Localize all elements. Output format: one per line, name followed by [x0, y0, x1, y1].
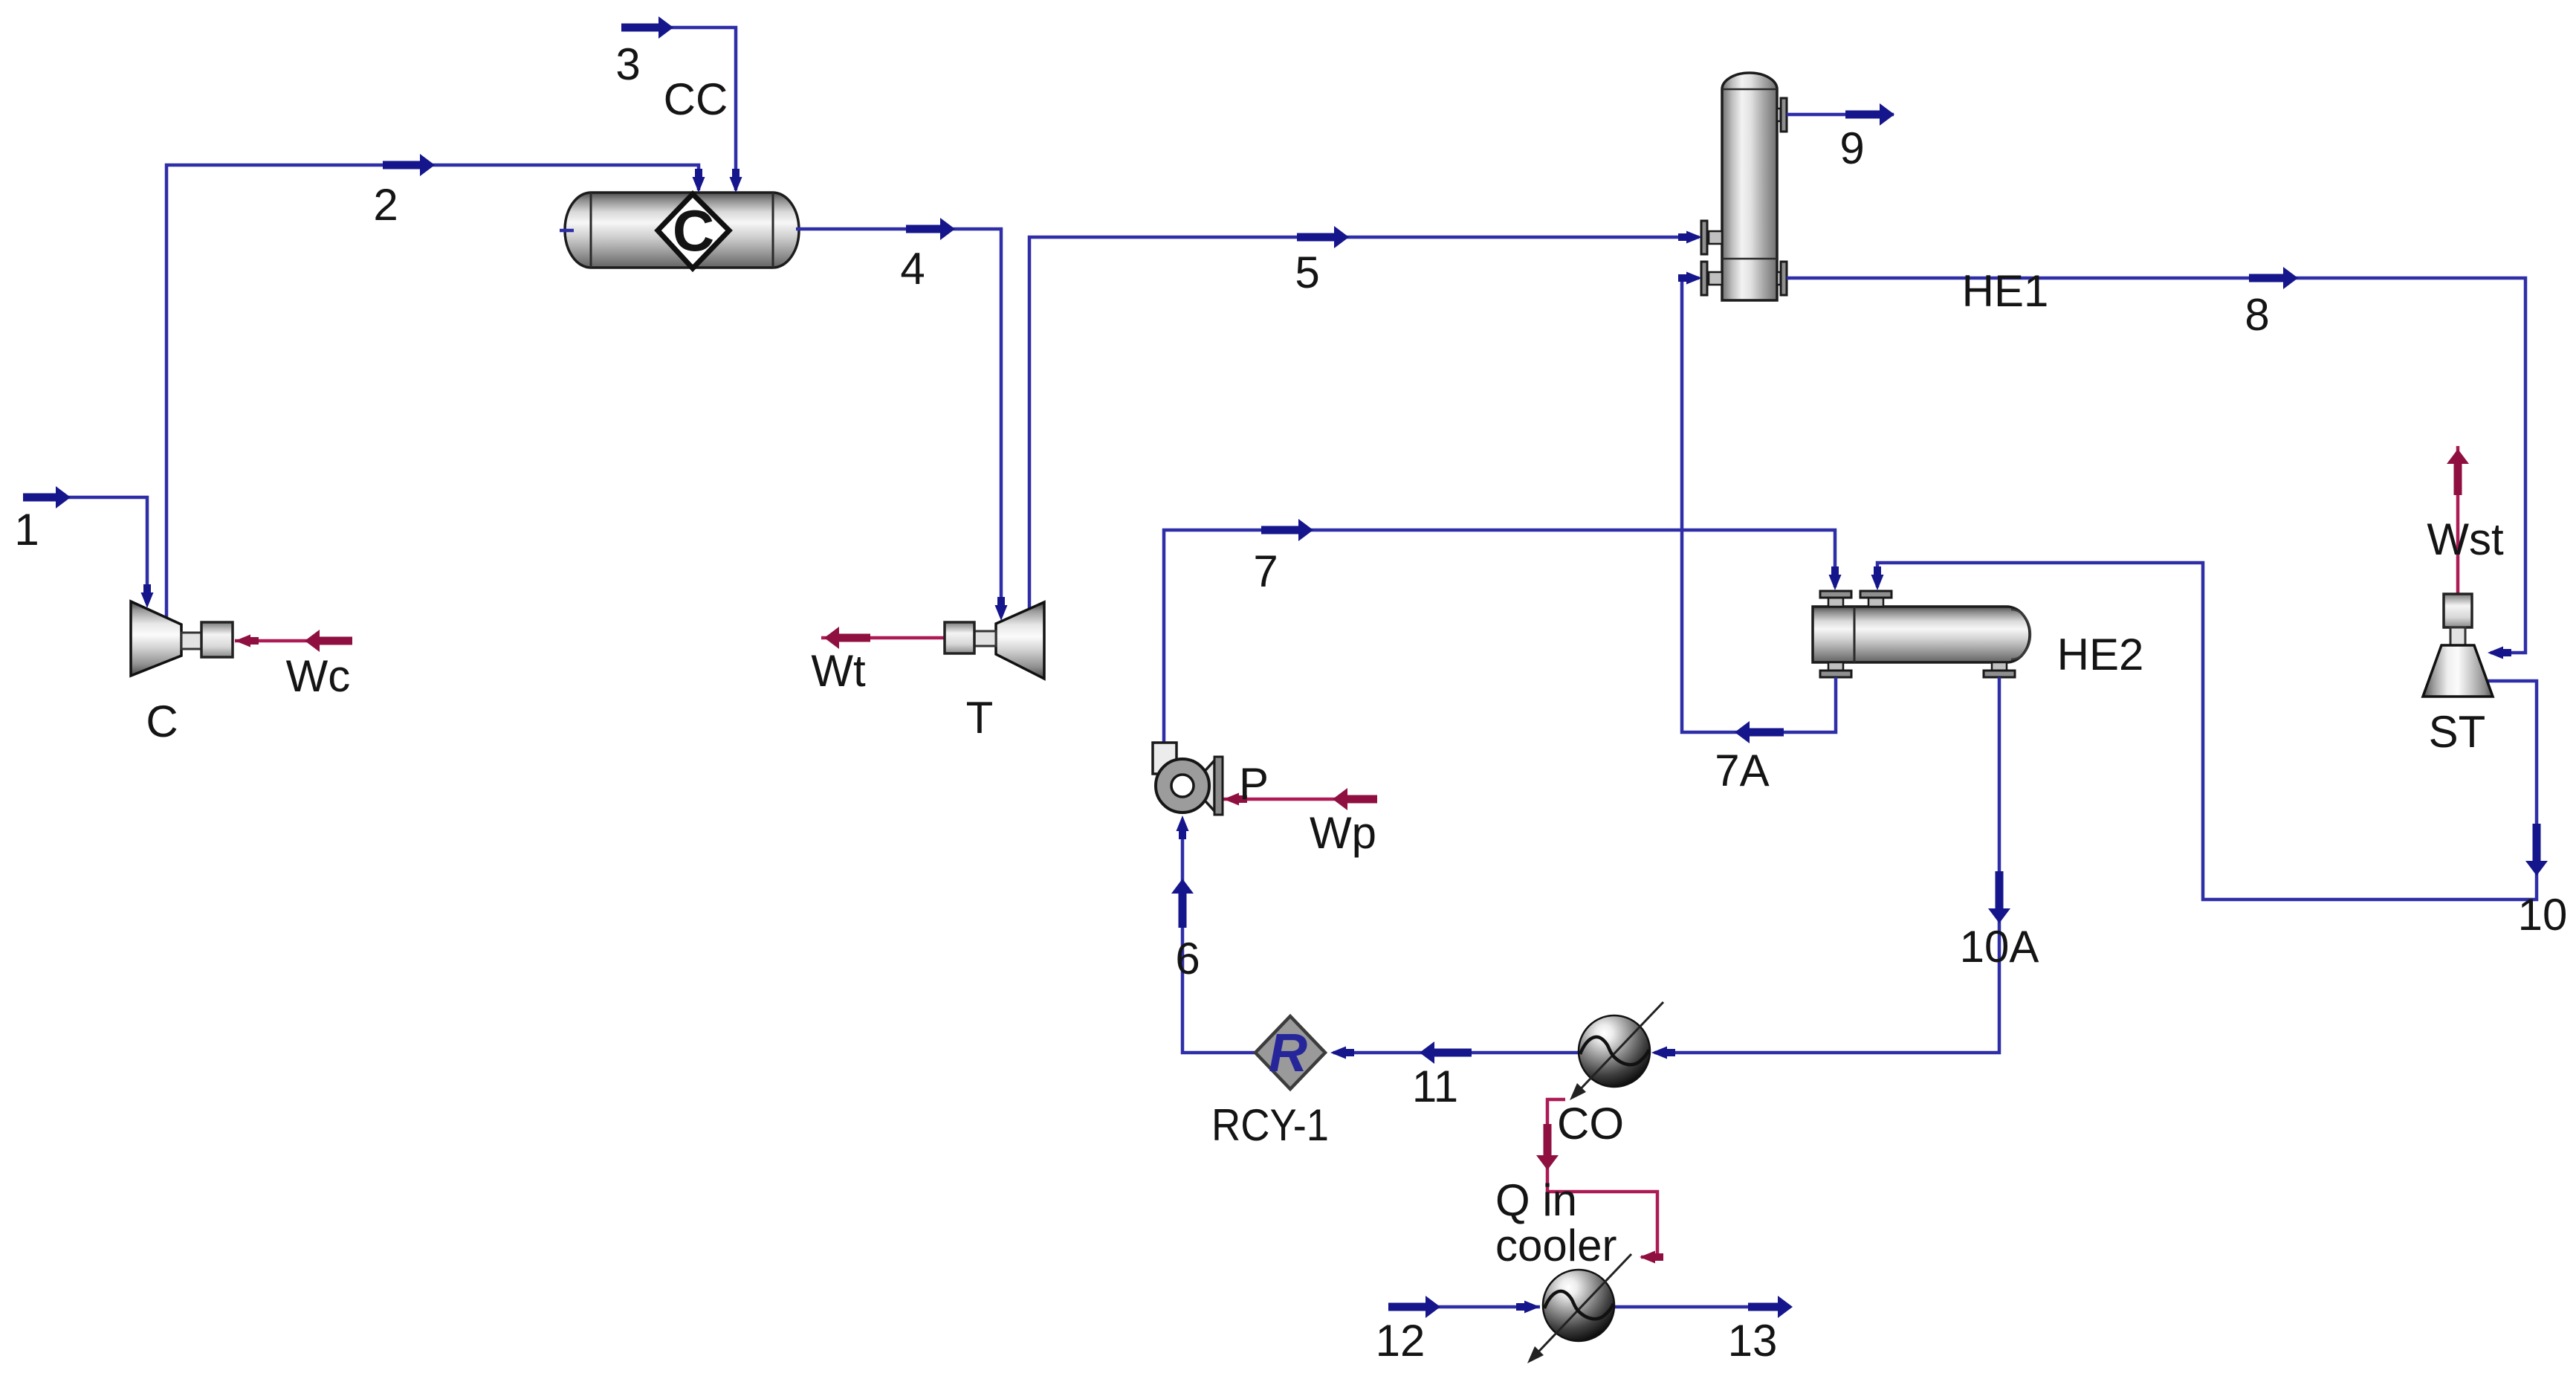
thick arrow stream 13 [1748, 1303, 1778, 1311]
svg-text:Wt: Wt [811, 646, 866, 696]
thick arrow stream 4 [906, 225, 940, 233]
wire stream 1 [23, 497, 147, 591]
HE1 nozzle left middle (stream 5 in) [1701, 221, 1722, 254]
svg-text:RCY-1: RCY-1 [1211, 1100, 1329, 1150]
arrowhead stream 10A into CO [1651, 1047, 1667, 1059]
svg-text:3: 3 [615, 39, 640, 89]
thick arrow stream 9 [1845, 111, 1880, 119]
wire stream 7A [1682, 278, 1836, 732]
svg-text:HE2: HE2 [2057, 630, 2144, 679]
compressor C [131, 601, 233, 676]
svg-text:7: 7 [1253, 546, 1278, 596]
HE1 nozzle left bottom (stream 7A in) [1701, 262, 1722, 295]
wire stream 11 [1333, 1051, 1579, 1055]
svg-text:HE1: HE1 [1962, 266, 2049, 316]
svg-text:8: 8 [2245, 290, 2269, 340]
svg-text:2: 2 [373, 180, 398, 230]
arrowhead stream 11 into RCY-1 [1330, 1047, 1346, 1059]
cooler CO ball [1570, 1002, 1663, 1100]
thick arrow Wst [2454, 464, 2462, 495]
arrowhead stream 7A into HE1 [1686, 272, 1702, 285]
arrowhead stream 4 into T [995, 605, 1008, 621]
wire stream 7 [1164, 530, 1835, 745]
svg-text:cooler: cooler [1495, 1221, 1617, 1270]
svg-text:13: 13 [1728, 1316, 1778, 1366]
recycle RCY-1 diamond [1255, 1016, 1325, 1089]
arrowhead Wc into C [235, 635, 250, 647]
wire stream 13 [1614, 1305, 1784, 1309]
svg-text:10A: 10A [1960, 922, 2039, 972]
thick arrow stream 10 [2533, 824, 2541, 861]
svg-text:C: C [673, 198, 714, 263]
Q in cooler ball [1527, 1254, 1631, 1363]
svg-text:9: 9 [1839, 123, 1864, 173]
HE2 nozzle bottom left (stream 7A out) [1820, 662, 1851, 677]
wire stream 12 [1388, 1305, 1540, 1309]
thick arrow stream 12 [1388, 1303, 1425, 1311]
heat exchanger HE2 vessel [1813, 607, 2030, 662]
HE1 nozzle right bottom (HE1 outlet) [1777, 262, 1787, 295]
wire energy Wt [821, 636, 945, 640]
svg-text:11: 11 [1412, 1062, 1458, 1111]
arrowhead stream 3 into CC [730, 177, 742, 193]
thick arrow stream 8 [2249, 274, 2283, 282]
arrowhead stream 5 into HE1 [1686, 231, 1702, 244]
svg-text:CO: CO [1557, 1099, 1624, 1149]
HE2 nozzle top B (stream 10 in) [1860, 591, 1891, 607]
svg-text:ST: ST [2429, 707, 2486, 757]
svg-text:5: 5 [1295, 248, 1319, 297]
arrowhead stream 2 into CC [693, 177, 705, 193]
thick arrow stream 7A [1750, 729, 1784, 737]
thick arrow Wt [839, 634, 870, 642]
wire stub CC left nozzle [560, 229, 574, 233]
thick arrow stream 6 [1179, 894, 1187, 928]
HE2 nozzle bottom right (stream 10A out) [1984, 662, 2015, 677]
arrowhead stream 12 into cooler [1524, 1301, 1540, 1314]
thick arrow Wc [320, 637, 352, 645]
arrowhead Wp into P [1223, 793, 1239, 806]
svg-text:C: C [146, 697, 178, 746]
HE2 nozzle top A (stream 7 in) [1820, 591, 1851, 607]
svg-text:1: 1 [14, 505, 39, 555]
steam turbine ST [2423, 594, 2493, 697]
wire energy Q in cooler duty [1547, 1099, 1657, 1257]
wire stream 5 [1029, 237, 1699, 613]
svg-text:Wc: Wc [286, 651, 351, 701]
svg-text:6: 6 [1175, 934, 1200, 983]
wire stream 6 [1182, 834, 1255, 1053]
svg-text:7A: 7A [1715, 746, 1769, 795]
wire stream 10 ST outlet [1877, 563, 2537, 899]
thick arrow stream 7 [1261, 526, 1298, 534]
svg-text:Wst: Wst [2427, 514, 2504, 564]
wire stream 9 [1787, 113, 1894, 117]
arrowhead stream 8 into ST [2488, 647, 2503, 659]
wire energy Wst [2456, 446, 2460, 594]
svg-text:4: 4 [900, 244, 925, 294]
svg-text:T: T [966, 693, 994, 743]
arrowhead duty into cooler [1640, 1251, 1655, 1264]
thick arrow stream 1 [23, 494, 56, 502]
thick arrow stream 3 [621, 24, 658, 32]
turbine T [945, 602, 1044, 679]
wire HE1 outlet / stream 8 [1787, 278, 2525, 653]
wire stream 4 [796, 229, 1001, 598]
arrowhead stream 7 into HE2 [1829, 575, 1842, 590]
svg-text:Q in: Q in [1495, 1175, 1577, 1225]
combustion chamber CC vessel [565, 193, 799, 268]
CC logo diamond with C [658, 194, 729, 268]
wire energy Wp [1223, 798, 1377, 801]
thick arrow cooler duty [1544, 1124, 1552, 1155]
svg-text:P: P [1239, 759, 1269, 809]
svg-text:10: 10 [2518, 890, 2568, 940]
wire stream 10A [1654, 677, 1999, 1053]
thick arrow stream 10A [1996, 871, 2004, 908]
wire stream 3 [621, 28, 736, 190]
thick arrow stream 2 [383, 161, 420, 169]
svg-text:Wp: Wp [1310, 808, 1376, 858]
pump P [1153, 743, 1223, 815]
svg-text:12: 12 [1376, 1316, 1425, 1366]
thick arrow stream 5 [1297, 233, 1334, 242]
HE1 nozzle top right (stream 9) [1777, 98, 1787, 132]
thick arrow stream 11 [1434, 1049, 1472, 1057]
heat exchanger HE1 vessel [1722, 73, 1777, 300]
arrowhead stream 10 into HE2 [1871, 575, 1884, 590]
thick arrow Wp [1347, 795, 1377, 804]
wire energy Wc [235, 639, 352, 643]
arrowhead stream 6 into P [1177, 815, 1189, 831]
svg-text:R: R [1269, 1024, 1307, 1083]
svg-text:CC: CC [664, 74, 728, 124]
wire stream 2 [166, 165, 699, 624]
arrowhead stream 1 into C [141, 592, 154, 608]
